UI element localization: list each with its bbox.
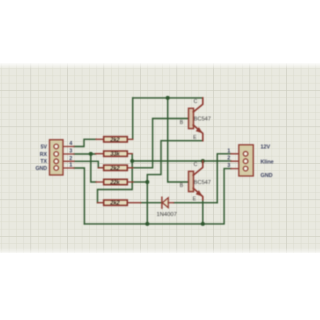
connector J1 pin 2 circle	[54, 159, 59, 164]
wire Q2 emitter down to bottom rail	[202, 199, 204, 224]
node bottom rail dot right	[201, 222, 205, 226]
wire R3 right up to Q1 base	[133, 119, 188, 168]
wire top rail junction down to Q2 base	[168, 98, 188, 182]
svg-text:B: B	[180, 183, 184, 189]
transistor Q2 collector line	[193, 161, 203, 175]
wire R5 right to diode cathode	[141, 202, 162, 204]
svg-text:TX: TX	[40, 159, 47, 165]
wire Q1 emitter dogleg to ground junction	[147, 141, 203, 182]
svg-text:B: B	[180, 120, 184, 126]
connector J2 body	[239, 145, 254, 176]
svg-text:C: C	[194, 99, 198, 105]
svg-text:2: 2	[69, 156, 72, 162]
resistor R2 leads	[96, 153, 133, 155]
diode D1 anode lead	[168, 202, 173, 204]
node K-line rail left dot	[130, 159, 134, 163]
connector J2 pin 3 circle	[243, 166, 248, 171]
transistor Q1 base bar	[189, 108, 194, 128]
connector J2 pin 1 circle	[243, 152, 248, 157]
svg-text:2k2: 2k2	[109, 166, 120, 172]
diode D1 triangle	[162, 198, 168, 208]
wire diode anode to 12V vertical	[174, 202, 218, 204]
wire K-line horizontal rail	[132, 160, 203, 162]
svg-text:GND: GND	[261, 173, 273, 179]
node bottom rail dot left	[145, 222, 149, 226]
transistor Q2 base bar	[189, 171, 194, 191]
node top rail junction dot	[166, 96, 170, 100]
resistor R1 leads	[96, 138, 133, 140]
transistor Q1 collector line	[193, 98, 203, 112]
svg-text:3: 3	[69, 149, 72, 155]
svg-text:1N4007: 1N4007	[157, 212, 177, 218]
svg-text:BC547: BC547	[194, 180, 211, 186]
svg-text:1: 1	[227, 148, 230, 154]
svg-text:2: 2	[227, 156, 230, 162]
wire GND pin1 down to bottom rail	[74, 168, 84, 224]
connector J1 pin stubs	[57, 147, 74, 169]
wire TX pin2 to R3 left	[74, 161, 104, 168]
wire top rail to Q1 collector	[133, 97, 203, 99]
svg-text:12V: 12V	[261, 145, 271, 151]
diode D1 1N4007 cathode bar	[161, 197, 163, 208]
resistor R2 body 33k	[104, 151, 128, 156]
svg-text:RX: RX	[40, 152, 48, 158]
resistor R4 leads	[96, 181, 133, 183]
connector J1 pin 4 circle	[54, 144, 59, 149]
connector J2 pin stubs	[231, 154, 244, 169]
wire R5 left up to K-line dot	[98, 161, 133, 203]
resistor R5 leads	[98, 202, 141, 204]
svg-text:4: 4	[69, 141, 72, 147]
svg-text:2k2: 2k2	[109, 201, 120, 207]
wire K-line rail to J2 pin2	[203, 160, 231, 162]
transistor Q2 emitter line	[193, 188, 203, 200]
connector J1 body	[50, 140, 64, 175]
wire 12V pin1 down to diode	[217, 154, 231, 203]
wire R4 right to ground junction	[133, 181, 147, 183]
svg-text:E: E	[193, 197, 197, 203]
node RX junction dot	[89, 152, 93, 156]
resistor R3 body 2k2	[104, 165, 128, 170]
connector J2 pin 2 circle	[243, 159, 248, 164]
transistor Q1 emitter line	[193, 125, 203, 141]
resistor R3 leads	[98, 167, 133, 169]
node Q2 collector dot	[201, 159, 205, 163]
wire R2 right down to K-line rail	[131, 154, 133, 161]
wire RX pin3 to R2 left	[74, 153, 96, 155]
svg-text:5V: 5V	[41, 144, 48, 150]
resistor R4 body 22k	[104, 179, 128, 184]
svg-text:3: 3	[227, 163, 230, 169]
wire R1 right up to top rail	[132, 98, 134, 139]
svg-text:GND: GND	[35, 166, 47, 172]
resistor R1 body 2k2	[104, 137, 128, 142]
svg-text:2k2: 2k2	[109, 137, 120, 143]
svg-text:22k: 22k	[109, 180, 120, 186]
wire junction down to bottom rail	[146, 182, 148, 224]
svg-text:Kline: Kline	[261, 159, 274, 165]
connector J1 pin 1 circle	[54, 166, 59, 171]
node R4 right junction dot	[145, 180, 149, 184]
connector J1 pin 3 circle	[54, 152, 59, 157]
svg-text:33k: 33k	[110, 152, 120, 158]
wire node RX junction down to R4 left	[91, 154, 96, 182]
wire bottom GND rail	[84, 169, 231, 224]
wire 5V pin4 to R1 left	[74, 139, 96, 146]
svg-text:E: E	[193, 135, 197, 141]
svg-text:1: 1	[69, 163, 72, 169]
resistor R5 body 2k2	[104, 200, 128, 205]
schematic grid background	[0, 63, 320, 253]
transistor Q2 emitter arrow	[196, 190, 203, 196]
svg-text:BC547: BC547	[194, 117, 211, 123]
transistor Q1 emitter arrow	[196, 127, 203, 133]
svg-text:C: C	[194, 162, 198, 168]
